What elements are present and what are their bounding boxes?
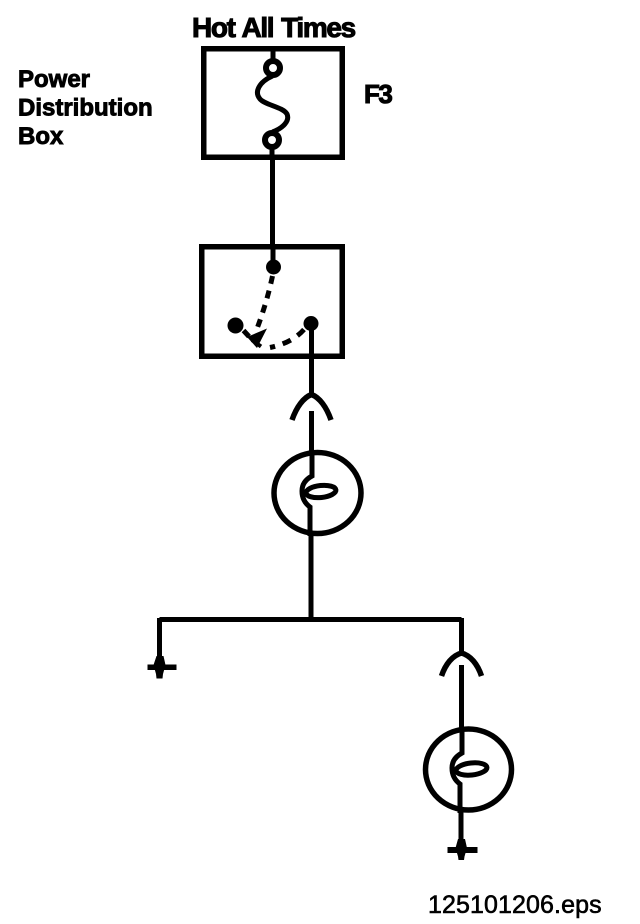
lamp L2 filament loop [455,761,487,776]
svg-text:F3: F3 [364,79,392,109]
wire: switch right contact down to connector [309,330,314,394]
ground G1 [148,656,177,679]
wire: left drop to ground G1 [157,618,162,658]
in-line connector C1 [292,395,331,421]
switch: dashed travel arc from right contact [270,330,304,348]
wire: lamp L1 to junction [309,533,314,619]
switch: dashed actuator from common [257,276,273,330]
node: switch right contact [304,316,319,331]
svg-text:Hot All Times: Hot All Times [192,12,356,43]
in-line connector C2 [442,653,482,676]
wire: stub into switch common [271,246,276,262]
svg-text:Power: Power [18,66,90,93]
fuse F3 [257,48,287,160]
svg-text:Box: Box [18,123,64,150]
wire: connector C2 to lamp L2 [459,665,464,729]
lamp L1 filament loop [305,484,336,499]
switch: arrowhead [247,329,267,349]
switch box outline [202,247,343,357]
svg-text:Distribution: Distribution [18,95,153,122]
lamp L2 filament wire [452,729,462,813]
lamp L2 bulb outline [426,729,512,810]
power distribution box outline [204,49,343,158]
lamp L1 filament wire [302,452,312,536]
svg-text:125101206.eps: 125101206.eps [428,891,602,919]
lamp L1 bulb outline [274,453,361,534]
ground G2 [448,839,478,860]
wire: connector C1 to lamp L1 [309,411,314,452]
wire: fuse box to switch box [270,160,275,246]
wire: horizontal junction bar [160,617,462,622]
wire: lamp L2 to ground G2 [459,810,464,841]
node: switch left contact [228,318,244,334]
node: switch common contact [266,260,281,275]
wire: right drop to connector C2 [459,618,464,654]
